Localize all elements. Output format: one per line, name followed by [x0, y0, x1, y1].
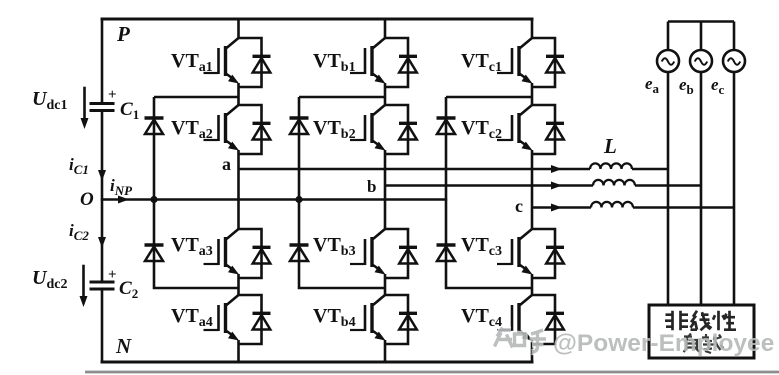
svg-text:a: a: [222, 154, 231, 174]
svg-text:eb: eb: [679, 75, 694, 97]
svg-text:iNP: iNP: [110, 176, 133, 198]
svg-text:VTb4: VTb4: [313, 305, 356, 330]
svg-text:@Power-Employee: @Power-Employee: [553, 330, 774, 357]
svg-text:VTa4: VTa4: [171, 305, 213, 330]
svg-text:L: L: [603, 134, 617, 158]
svg-text:VTc2: VTc2: [461, 117, 502, 142]
svg-text:VTa2: VTa2: [171, 117, 213, 142]
svg-text:Udc2: Udc2: [32, 267, 67, 292]
svg-text:VTa3: VTa3: [171, 234, 213, 259]
svg-text:VTb2: VTb2: [313, 117, 356, 142]
svg-text:VTc1: VTc1: [461, 50, 502, 75]
svg-text:+: +: [108, 87, 117, 103]
svg-text:VTb3: VTb3: [313, 234, 356, 259]
svg-text:VTb1: VTb1: [313, 50, 356, 75]
svg-text:ea: ea: [645, 74, 660, 96]
svg-text:Udc1: Udc1: [32, 88, 67, 113]
svg-text:VTa1: VTa1: [171, 50, 213, 75]
svg-text:+: +: [108, 267, 117, 283]
svg-text:iC2: iC2: [69, 221, 89, 243]
svg-text:P: P: [116, 22, 130, 46]
svg-text:c: c: [515, 196, 523, 216]
svg-text:O: O: [80, 189, 94, 210]
svg-text:ec: ec: [711, 75, 725, 97]
svg-text:b: b: [367, 177, 376, 196]
svg-text:N: N: [115, 334, 132, 358]
svg-text:C2: C2: [119, 278, 138, 301]
svg-text:iC1: iC1: [69, 155, 89, 177]
svg-text:VTc3: VTc3: [461, 234, 502, 259]
svg-text:C1: C1: [120, 99, 139, 122]
svg-text:VTc4: VTc4: [461, 305, 502, 330]
